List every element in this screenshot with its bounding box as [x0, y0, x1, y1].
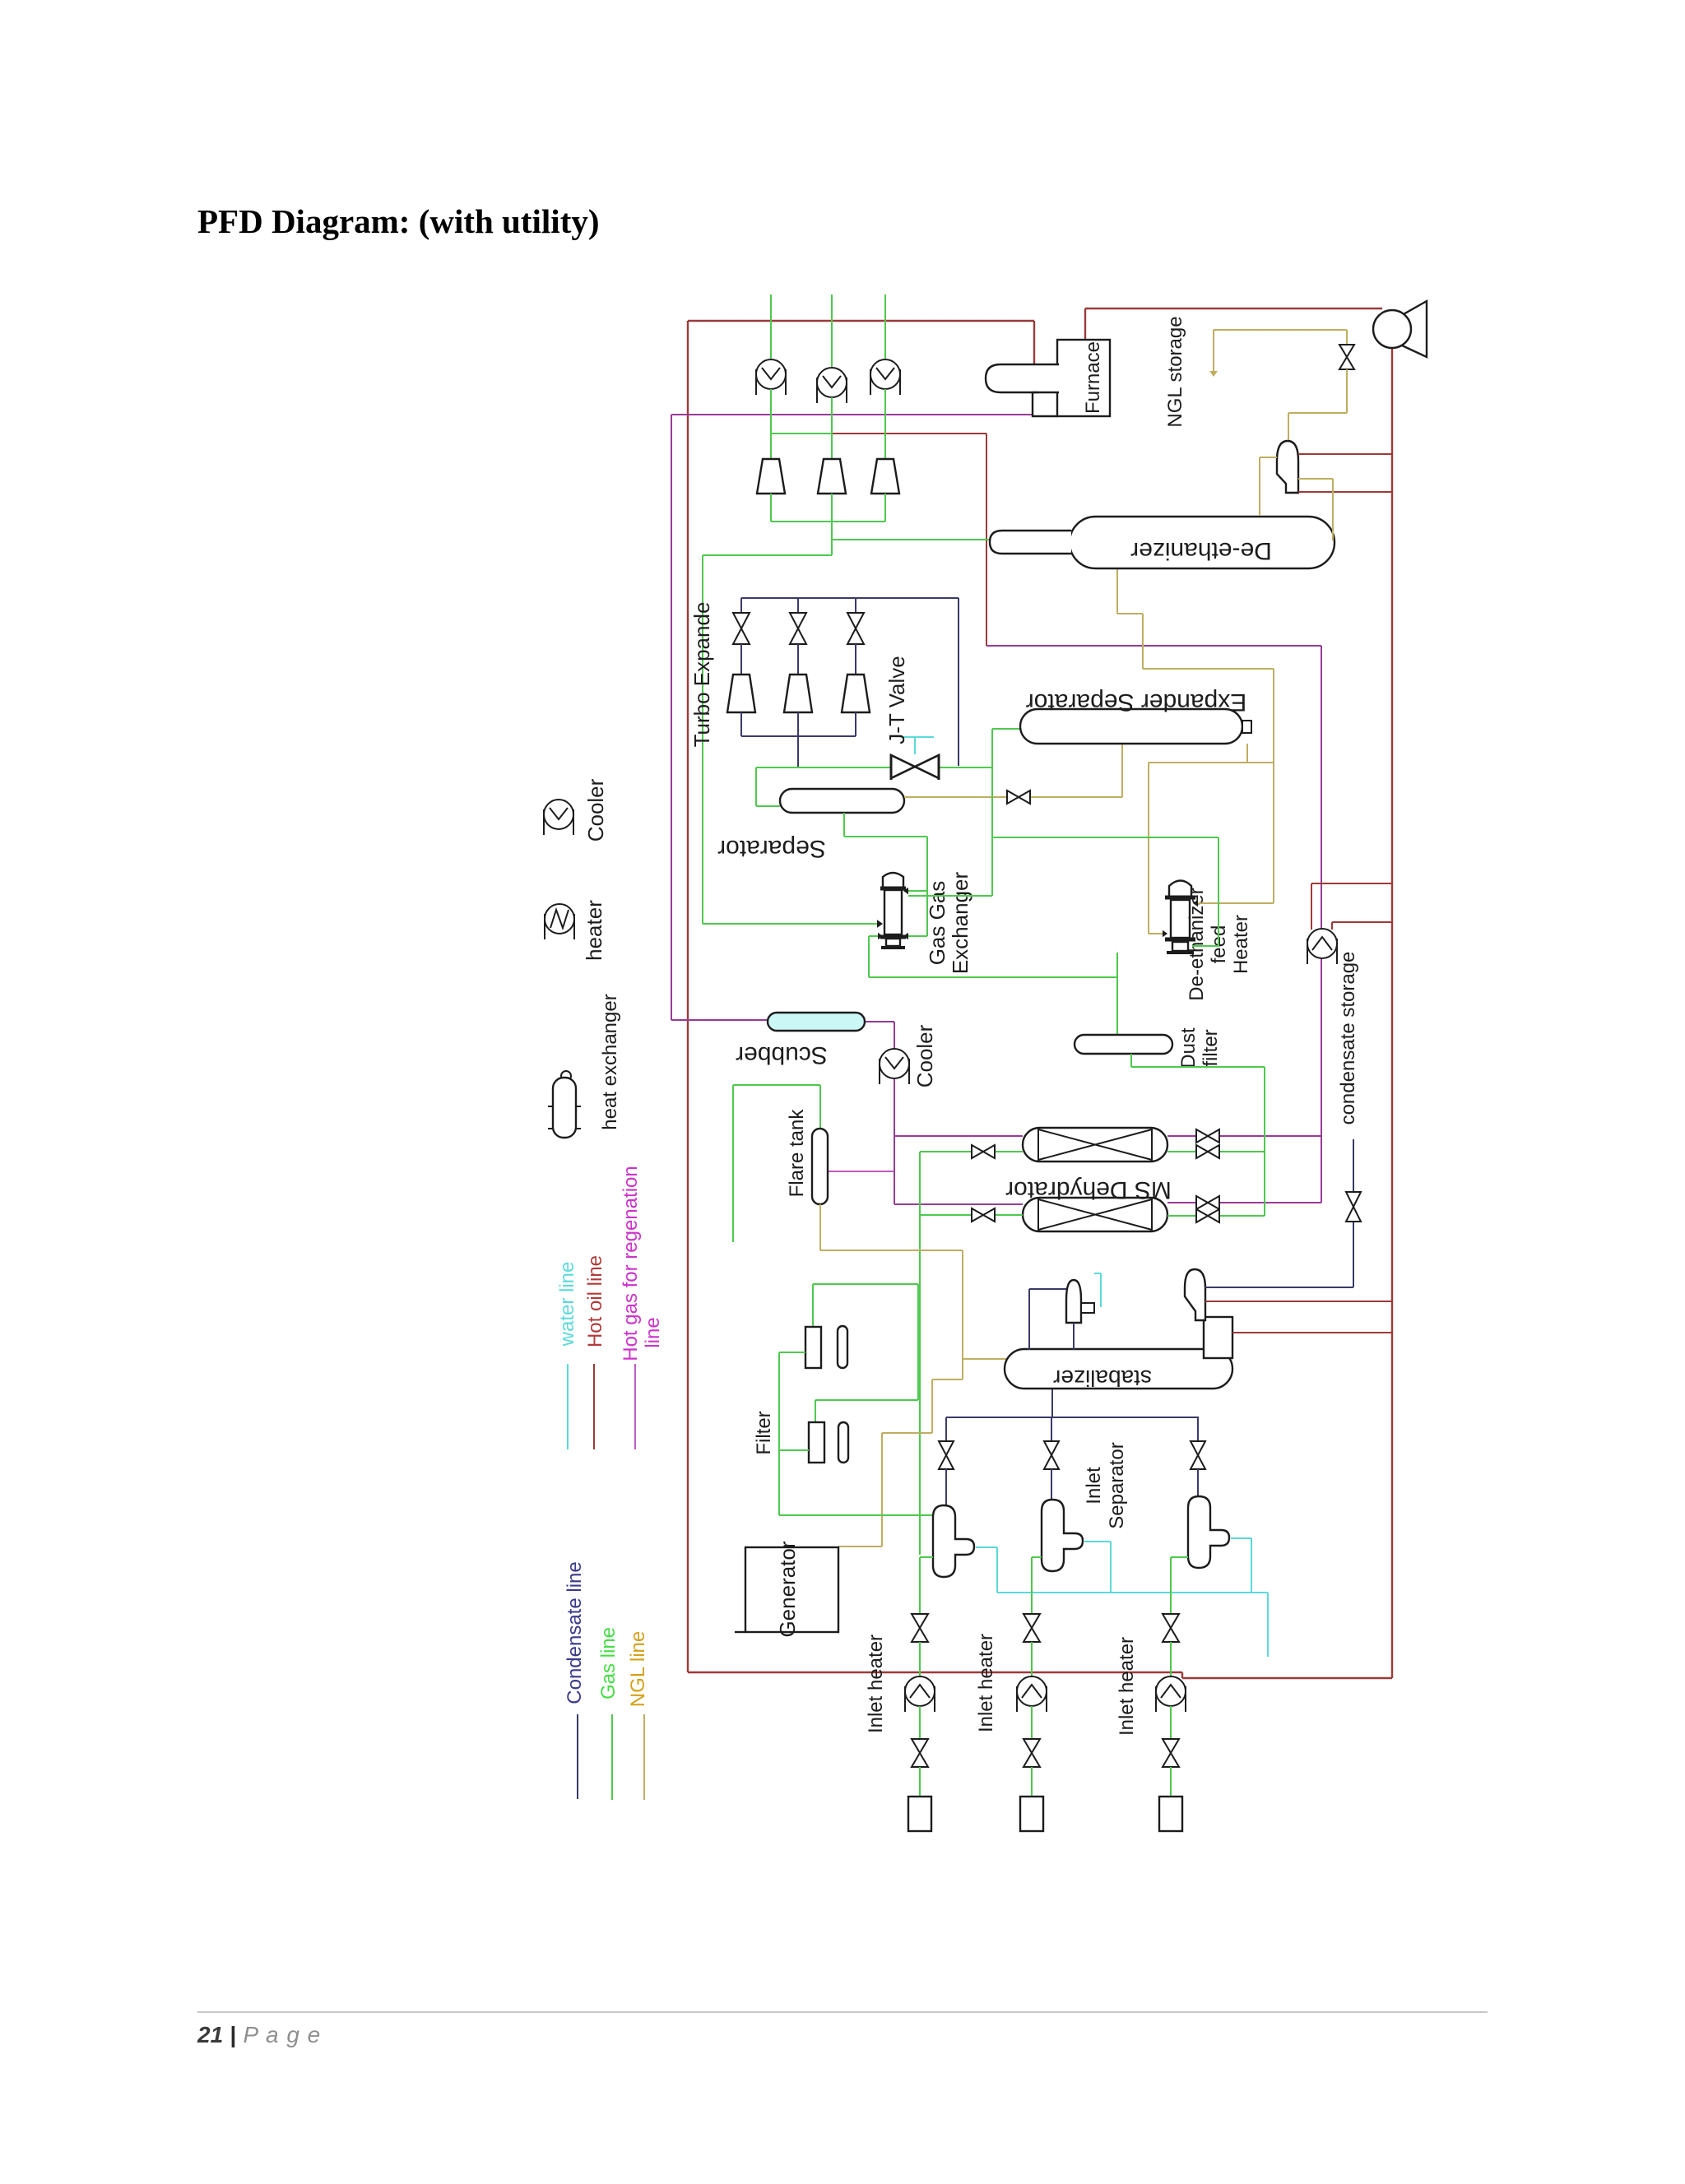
svg-text:Inlet heater: Inlet heater — [1116, 1637, 1138, 1736]
arrow into exchanger left nozzle — [877, 920, 883, 928]
wire navy expander collector — [741, 735, 856, 737]
wire khaki to reflux vessel — [1288, 412, 1347, 414]
svg-text:Exchanger: Exchanger — [948, 872, 972, 975]
wire khaki reflux vessel top — [1288, 413, 1289, 441]
turbo expander 3 — [842, 675, 870, 712]
wire navy bottoms header — [946, 1417, 1199, 1418]
svg-text:line: line — [642, 1317, 664, 1347]
expander stage 3a — [871, 459, 899, 494]
wire green filter box right — [917, 1284, 919, 1400]
wire green trap3 outlet — [884, 494, 886, 522]
wire green fan header — [771, 433, 832, 434]
wire red drum to border upper — [1205, 1301, 1392, 1302]
wire navy riser 2 lower — [1051, 1469, 1052, 1500]
wire khaki drop to feed heater left — [1148, 763, 1149, 934]
wire navy collector drop to gas line — [797, 736, 799, 767]
wire green drop to separator — [755, 767, 757, 806]
wire green filter B side line — [780, 1449, 809, 1451]
valve train 1 upper — [912, 1614, 928, 1642]
wire purple upper dehydrator right — [1167, 1135, 1321, 1137]
wire purple regen header horizontal — [986, 645, 1321, 647]
wire khaki upper link — [1143, 668, 1274, 670]
svg-text:Gas Gas: Gas Gas — [925, 881, 949, 966]
wire navy branch 3 upper — [855, 598, 856, 613]
wire cyan sep2 nozzle — [1084, 1541, 1111, 1542]
svg-text:Heater: Heater — [1230, 915, 1252, 974]
arrow exchanger right top nozzle — [903, 888, 908, 894]
flare tank vessel — [812, 1129, 828, 1204]
generator — [745, 1547, 838, 1632]
wire green exchanger bottom to dust filter line — [869, 976, 1117, 978]
svg-text:water line: water line — [556, 1262, 578, 1347]
wire purple scrubber to cooler — [865, 1021, 894, 1022]
svg-text:Filter: Filter — [753, 1411, 775, 1454]
wire maroon hot oil top link — [832, 433, 986, 434]
wire red boot to border lower — [1232, 1332, 1392, 1333]
de-ethanizer reflux drum — [1277, 441, 1298, 493]
wire khaki drum bottom line — [1298, 478, 1333, 480]
arrow exchanger right bottom nozzle — [903, 933, 908, 939]
wire green filter A side line — [779, 1352, 805, 1353]
svg-text:Inlet heater: Inlet heater — [865, 1635, 887, 1733]
svg-text:Cooler: Cooler — [583, 778, 608, 842]
valve condensate line — [1346, 1192, 1361, 1222]
svg-text:filter: filter — [1200, 1029, 1222, 1066]
valve upper dehydrator right green — [1196, 1145, 1219, 1158]
wire khaki riser to expander separator — [1121, 744, 1123, 797]
wire red bottom border left — [688, 1672, 1182, 1673]
wire cyan tick — [1094, 1273, 1101, 1274]
wire navy branch 1 upper — [740, 598, 742, 613]
svg-text:Turbo Expande: Turbo Expande — [689, 602, 714, 748]
wire navy riser 2 upper — [1051, 1417, 1052, 1441]
wire green dust filter bottom — [1130, 1054, 1132, 1067]
wire green dehydrator right header — [1264, 1067, 1265, 1216]
de-ethanizer vessel — [1070, 517, 1335, 568]
legend heater icon — [545, 904, 574, 939]
wire green exchanger right top stub — [908, 890, 927, 892]
svg-text:heat exchanger: heat exchanger — [599, 994, 621, 1129]
wire navy drum to stabilizer top — [1028, 1289, 1030, 1350]
wire green feed heater right bottom — [1192, 945, 1218, 947]
wire green flare tank inlet — [819, 1085, 821, 1129]
wire cyan water header end — [1267, 1593, 1269, 1657]
legend condensate line sample — [577, 1714, 578, 1799]
valve train 3 upper — [1163, 1614, 1179, 1642]
wire navy branch 1 mid — [740, 644, 742, 675]
wire red reflux drum to border — [1298, 453, 1392, 455]
svg-text:Generator: Generator — [775, 1541, 800, 1637]
wire khaki jog2 — [931, 1379, 933, 1433]
wire navy drum bottom to stabilizer — [1073, 1323, 1075, 1350]
inlet separator 3 — [1188, 1496, 1229, 1568]
wire green exchanger left bottom stub — [869, 935, 878, 937]
wire cyan water to drum — [1100, 1273, 1102, 1307]
svg-text:Furnace: Furnace — [1082, 341, 1104, 414]
valve NGL line — [1339, 345, 1354, 369]
expander separator right nozzle — [1242, 721, 1251, 733]
stabilizer reflux drum right — [1185, 1269, 1205, 1320]
wire red condensate hx right link — [1332, 921, 1392, 923]
wire cyan sep3 drop — [1251, 1538, 1252, 1593]
svg-text:J-T Valve: J-T Valve — [884, 656, 909, 744]
legend NGL line sample — [643, 1714, 645, 1800]
J-T valve — [891, 755, 939, 778]
wire red furnace top riser — [1084, 308, 1086, 340]
valve lower dehydrator right green — [1196, 1209, 1219, 1222]
wire red top border left segment — [688, 320, 1034, 322]
wire purple to lower dehydrator left — [894, 1203, 1023, 1205]
wire green filter A inlet — [812, 1284, 814, 1327]
svg-text:Dust: Dust — [1177, 1027, 1200, 1069]
wire khaki into generator — [838, 1546, 882, 1547]
svg-text:condensate storage: condensate storage — [1337, 952, 1359, 1125]
wire green flare top header — [733, 1084, 820, 1086]
train 3 — [1171, 1556, 1188, 1558]
wire red bottom border step — [1181, 1672, 1183, 1678]
dust filter vessel — [1075, 1035, 1172, 1054]
wire purple left vertical — [671, 415, 672, 1020]
wire navy branch 2 mid — [797, 644, 799, 675]
wire khaki separator liquid line — [904, 796, 1122, 798]
wire khaki NGL storage line top — [1214, 329, 1347, 331]
wire khaki NGL storage stub — [1213, 330, 1214, 372]
expander stage 1a — [757, 459, 785, 494]
svg-text:Flare tank: Flare tank — [786, 1109, 808, 1198]
furnace — [1057, 340, 1110, 416]
MS dehydrator lower — [1023, 1198, 1167, 1231]
wire navy condensate vertical — [1353, 1139, 1354, 1287]
inlet heater train 1 — [905, 1676, 935, 1712]
legend hot oil line sample — [593, 1364, 595, 1449]
wire khaki valve upper — [1346, 330, 1348, 345]
wire green flare left leg — [732, 1085, 734, 1242]
wire green lower dehydrator left outlet — [920, 1214, 1023, 1216]
MS dehydrator upper — [1023, 1128, 1167, 1162]
svg-text:Condensate line: Condensate line — [564, 1561, 586, 1704]
filter A — [805, 1327, 821, 1368]
wire green feed heater bottom to dust filter — [1116, 953, 1118, 1035]
wire green exchanger bottom left drop — [868, 936, 870, 977]
svg-text:heater: heater — [582, 900, 606, 961]
valve train 2 lower — [1024, 1739, 1040, 1767]
wire green expander separator left nozzle — [992, 728, 1020, 730]
wire purple to scrubber left — [671, 1019, 768, 1021]
valve lower dehydrator left — [972, 1208, 995, 1222]
wire green trap2 outlet — [831, 494, 833, 522]
svg-text:NGL line: NGL line — [627, 1631, 649, 1707]
wire green fan line 3 upper — [884, 294, 886, 359]
wire cyan sep3 nozzle — [1231, 1537, 1251, 1539]
inlet separator 1 — [933, 1505, 974, 1577]
wire purple lower dehydrator right — [1167, 1202, 1321, 1203]
wire navy riser 3 lower — [1197, 1469, 1199, 1496]
wire khaki de-ethanizer bottom jog — [1117, 613, 1143, 614]
wire khaki down to stabilizer level — [962, 1250, 963, 1379]
wire green upper dehydrator left outlet — [920, 1151, 1023, 1152]
wire green expander separator down — [991, 729, 993, 896]
wire navy drum left line — [1029, 1288, 1066, 1290]
wire green long vertical inlet line 1 — [919, 1152, 921, 1555]
svg-text:De-ethanizer: De-ethanizer — [1130, 537, 1272, 564]
wire green separator bottom horizontal — [844, 836, 927, 837]
wire green filter box bottom — [815, 1399, 918, 1401]
arrow feed heater right nozzle — [1193, 900, 1198, 907]
wire khaki expander separator bottom right — [1246, 744, 1248, 763]
arrow on gas line — [925, 762, 932, 772]
valve separator liquid — [1007, 791, 1030, 804]
wire green fan2 to trapezoid — [831, 397, 833, 459]
footer rule — [197, 2011, 1488, 2013]
valve turbo expander inlet 1 — [733, 613, 750, 644]
de-ethanizer feed heater vessel — [1169, 881, 1191, 897]
svg-text:Inlet: Inlet — [1083, 1467, 1105, 1505]
wire green trap1 outlet — [770, 494, 772, 522]
wire green main gas line — [756, 767, 992, 768]
stabilizer vessel — [1005, 1349, 1232, 1389]
cooler fan 1 — [756, 359, 786, 395]
wire navy drum to condensate valve line — [1205, 1287, 1353, 1288]
wire navy riser 3 upper — [1197, 1417, 1199, 1441]
wire khaki jog1 — [932, 1379, 963, 1380]
inlet heater train 3 — [1156, 1676, 1186, 1712]
wire navy branch 3 mid — [855, 644, 856, 675]
svg-text:Separator: Separator — [1106, 1442, 1128, 1528]
wire khaki into feed heater right top — [1197, 902, 1274, 904]
arrow feed heater left nozzle — [1163, 930, 1167, 937]
cooler fan 3 — [870, 359, 900, 395]
wire khaki drop to de-ethanizer top — [1332, 479, 1334, 540]
wire navy header down to gas line — [958, 598, 959, 766]
legend cooler icon — [544, 800, 573, 835]
wire khaki flare bottom header — [820, 1250, 963, 1251]
inlet separator 2 — [1042, 1500, 1083, 1571]
scrubber vessel — [768, 1013, 865, 1031]
wire red bottom border right — [1182, 1677, 1392, 1679]
expander separator vessel — [1020, 709, 1242, 744]
de-ethanizer neck — [990, 531, 1071, 554]
wire magenta flare tank to purple line — [827, 1171, 894, 1172]
wire khaki to stabilizer left — [963, 1358, 1007, 1360]
train 1 — [920, 1556, 933, 1558]
arrow to NGL storage — [1209, 371, 1218, 377]
wire navy riser 1 upper — [945, 1417, 947, 1441]
valve lower dehydrator right purple — [1196, 1196, 1219, 1209]
valve train 2 upper — [1024, 1614, 1040, 1642]
legend gas line sample — [611, 1714, 613, 1800]
wire navy branch 2 upper — [797, 598, 799, 613]
valve train 3 lower — [1163, 1739, 1179, 1767]
svg-text:Inlet heater: Inlet heater — [975, 1634, 997, 1732]
wire green fan line 1 upper — [770, 294, 772, 359]
wire green lower dehydrator right — [1167, 1215, 1265, 1217]
wire green trap collector — [771, 521, 885, 522]
wire red reflux drum bottom to border — [1298, 491, 1392, 493]
wire green long vertical to gas gas exchanger — [702, 555, 703, 924]
wire purple to upper dehydrator left — [894, 1135, 1023, 1137]
valve inlet separator feed 1 — [939, 1441, 954, 1469]
cooler circle — [880, 1049, 909, 1084]
valve turbo expander inlet 3 — [847, 613, 864, 644]
wire red right border vertical — [1391, 348, 1393, 1678]
svg-text:Expander Separator: Expander Separator — [1026, 689, 1247, 716]
wire khaki flare tank bottom — [819, 1204, 821, 1250]
wire green filter box top — [813, 1283, 918, 1285]
legend hot gas line sample — [634, 1364, 636, 1449]
arrow exchanger left bottom nozzle — [878, 933, 883, 939]
wire cyan sep2 drop — [1110, 1542, 1112, 1593]
wire green separator bottom — [843, 813, 845, 837]
wire green filter feed vertical — [778, 1352, 780, 1515]
svg-text:Cooler: Cooler — [912, 1024, 937, 1087]
wire green cross line to feed heater — [992, 837, 1218, 838]
wire khaki reflux return top — [1260, 457, 1277, 458]
wire green fan line 2 upper — [831, 294, 833, 368]
svg-text:Hot gas for regenation: Hot gas for regenation — [620, 1166, 642, 1361]
wire purple regen vertical — [1321, 646, 1322, 1203]
cyan water line at J-T valve — [903, 736, 934, 738]
wire red condensate hx top — [1311, 883, 1392, 884]
valve train 1 lower — [912, 1739, 928, 1767]
valve upper dehydrator right purple — [1196, 1129, 1219, 1143]
wire cyan sep1 drop — [996, 1547, 998, 1593]
wire khaki de-ethanizer bottom outlet — [1116, 568, 1118, 614]
wire khaki valve lower — [1346, 369, 1348, 413]
wire green feed to de-ethanizer — [832, 539, 990, 540]
wire red condensate hx left drop — [1311, 883, 1312, 930]
wire khaki bottoms link — [1149, 762, 1274, 763]
wire green fan3 to trapezoid — [884, 389, 886, 459]
wire purple furnace bottom line — [671, 414, 1033, 415]
filter B — [809, 1422, 824, 1463]
wire cyan sep1 nozzle — [976, 1546, 997, 1548]
svg-text:Separator: Separator — [717, 835, 826, 862]
wire green into separator — [756, 805, 780, 807]
wire navy stabilizer bottoms — [1051, 1389, 1053, 1417]
wire green into exchanger left — [703, 923, 878, 925]
wire green filter B inlet — [815, 1400, 816, 1422]
svg-text:Scubber: Scubber — [736, 1041, 828, 1069]
wire green drop to deethanizer feed — [831, 522, 833, 555]
wire cyan water header — [997, 1592, 1268, 1593]
separator vessel — [780, 789, 904, 813]
wire green drop to exchanger right — [926, 837, 928, 936]
wire navy turbo expander header — [741, 597, 959, 599]
NGL pump — [1402, 301, 1427, 357]
wire khaki from de-ethanizer bottom 2 — [1142, 614, 1144, 669]
wire navy branch 1 lower — [740, 712, 742, 736]
wire green to exchanger right — [908, 895, 992, 897]
wire maroon vertical to regen header — [986, 434, 987, 646]
wire khaki jog3 — [882, 1432, 932, 1434]
train 2 — [1032, 1556, 1042, 1558]
wire green fan1 to trapezoid — [770, 389, 772, 459]
wire navy branch 2 lower — [797, 712, 799, 736]
wire red drop into furnace left — [1033, 321, 1035, 365]
valve upper dehydrator left — [972, 1145, 995, 1158]
wire red left border vertical — [687, 321, 689, 1672]
wire khaki into feed heater left — [1149, 933, 1163, 934]
expander stage 2a — [818, 459, 846, 494]
stabilizer boot — [1204, 1317, 1232, 1358]
stabilizer ovhd drum left — [1066, 1280, 1081, 1323]
wire green branch to exchanger line — [703, 554, 832, 556]
valve inlet separator feed 2 — [1044, 1441, 1059, 1469]
legend heat exchanger icon — [561, 1071, 571, 1081]
condensate heat exchanger — [1307, 929, 1337, 964]
cooler fan 2 — [817, 368, 847, 403]
wire green to inlet separator 1 — [779, 1514, 933, 1516]
wire red top segment furnace to pump — [1085, 308, 1382, 309]
wire green upper dehydrator right — [1167, 1151, 1265, 1152]
turbo expander 1 — [727, 675, 755, 712]
valve inlet separator feed 3 — [1191, 1441, 1205, 1469]
inlet heater train 2 — [1017, 1676, 1047, 1712]
wire green riser from feed heater — [1218, 837, 1219, 946]
wire navy branch 3 lower — [855, 712, 856, 736]
wire purple cooler inlet drop — [894, 1022, 895, 1050]
wire khaki down to generator — [881, 1433, 883, 1546]
legend water line sample — [567, 1364, 569, 1449]
turbo expander 2 — [784, 675, 812, 712]
svg-text:MS Dehydrator: MS Dehydrator — [1005, 1176, 1172, 1203]
wire green dust filter to header — [1131, 1066, 1265, 1068]
svg-text:Gas line: Gas line — [597, 1627, 620, 1699]
wire khaki long vertical from de-ethanizer — [1273, 669, 1274, 903]
svg-text:21 | P a g e: 21 | P a g e — [197, 2022, 321, 2047]
wire purple cooler outlet drop — [894, 1078, 895, 1204]
svg-text:Hot oil line: Hot oil line — [584, 1255, 606, 1347]
svg-text:NGL storage: NGL storage — [1164, 316, 1186, 427]
svg-text:PFD Diagram: (with utility): PFD Diagram: (with utility) — [197, 202, 600, 240]
wire navy riser 1 lower — [945, 1469, 947, 1505]
wire red condensate hx right stub — [1331, 922, 1333, 930]
wire green exchanger right bottom stub — [908, 935, 927, 937]
wire khaki reflux return drop — [1259, 457, 1260, 516]
gas gas exchanger vessel — [883, 873, 903, 887]
valve turbo expander inlet 2 — [790, 613, 806, 644]
svg-text:stabalizer: stabalizer — [1053, 1366, 1152, 1391]
